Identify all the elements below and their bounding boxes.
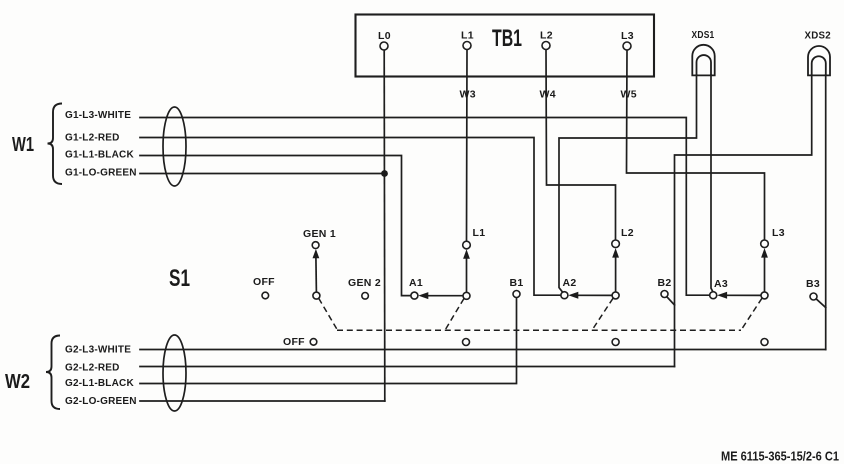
- svg-text:G2-L2-RED: G2-L2-RED: [65, 363, 120, 374]
- wire S1 arm GEN1: [315, 257, 318, 292]
- lamp XDS2: [808, 46, 830, 75]
- wire S1 arm L2 up: [615, 257, 617, 292]
- brace W2: [46, 336, 60, 410]
- arrowhead A3: [717, 292, 727, 299]
- contact L3: [761, 240, 769, 248]
- wire G2-L2-RED to B2: [140, 366, 675, 368]
- wire S1 arm L2 to A2: [578, 294, 613, 296]
- svg-text:W1: W1: [12, 134, 34, 156]
- contact GEN2: [362, 293, 369, 300]
- wire S1 arm L1 to A1: [428, 295, 463, 297]
- junction dot G1-LO-GREEN / L0: [381, 170, 388, 177]
- svg-text:A1: A1: [409, 277, 423, 289]
- wire W3 (TB1-L1 to S1 pole L1): [466, 50, 469, 242]
- pivot pole1: [463, 292, 470, 299]
- wire G1-L1-BLACK to contact A1: [140, 156, 411, 296]
- contact B1: [513, 291, 520, 298]
- wire G1-L3-WHITE to contact A3: [140, 118, 710, 296]
- terminal TB1-L3: [623, 42, 631, 50]
- wire stub B2: [667, 297, 675, 305]
- arrowhead L1 up: [463, 249, 470, 258]
- svg-text:L1: L1: [473, 227, 486, 239]
- wire XDS1 pin2 to contact A3: [711, 75, 713, 292]
- terminal TB1-L2: [542, 42, 550, 50]
- S1 gang dashed linkage rail: [319, 298, 762, 330]
- svg-text:L3: L3: [772, 227, 785, 239]
- svg-text:B2: B2: [658, 277, 672, 289]
- svg-text:L0: L0: [378, 30, 391, 42]
- svg-text:B3: B3: [806, 278, 820, 290]
- svg-text:G1-LO-GREEN: G1-LO-GREEN: [65, 168, 137, 179]
- wire L0 bus (TB1-L0 down to G2-LO-GREEN): [383, 50, 386, 401]
- wire W5 (TB1-L3 to S1 pole L3): [627, 50, 765, 241]
- svg-text:L1: L1: [461, 30, 474, 42]
- contact B3: [810, 293, 817, 300]
- arrowhead A2: [568, 292, 578, 299]
- terminal TB1-L0: [380, 42, 388, 50]
- arrowhead L3 up: [761, 248, 768, 258]
- contact OFF row 2: [310, 339, 317, 346]
- gang link L1: [445, 299, 464, 331]
- contact A1: [411, 292, 418, 299]
- cable sheath W2: [163, 335, 186, 411]
- svg-text:L3: L3: [621, 30, 634, 42]
- arrowhead GEN1: [313, 249, 320, 258]
- svg-text:XDS2: XDS2: [805, 30, 832, 42]
- terminal block TB1: [356, 15, 655, 77]
- contact off pole3: [761, 339, 768, 346]
- svg-text:S1: S1: [169, 265, 190, 292]
- svg-text:G2-L3-WHITE: G2-L3-WHITE: [65, 345, 131, 356]
- brace W1: [48, 104, 63, 185]
- svg-text:GEN 1: GEN 1: [303, 228, 336, 240]
- terminal TB1-L1: [463, 42, 471, 50]
- svg-text:B1: B1: [510, 277, 524, 289]
- arrowhead L2 up: [612, 248, 619, 258]
- wire G2-LO-GREEN to L0 bus: [140, 400, 385, 402]
- wire G2-L3-WHITE to B3: [140, 349, 826, 351]
- svg-text:OFF: OFF: [283, 336, 305, 348]
- contact GEN1: [312, 242, 319, 249]
- wire S1 arm L3 to A3: [727, 294, 762, 296]
- svg-text:G1-L2-RED: G1-L2-RED: [65, 133, 120, 144]
- wire W4 (TB1-L2 to S1 pole L2): [546, 50, 616, 241]
- arrowhead A1: [418, 292, 428, 299]
- svg-text:GEN 2: GEN 2: [348, 277, 381, 289]
- svg-text:G1-L1-BLACK: G1-L1-BLACK: [65, 150, 134, 161]
- svg-text:G2-L1-BLACK: G2-L1-BLACK: [65, 378, 134, 389]
- svg-text:OFF: OFF: [253, 276, 275, 288]
- wire XDS2 pin1 to contact B2 / G2-L2-RED: [675, 75, 812, 367]
- wire G2-L1-BLACK to contact B1: [140, 297, 517, 383]
- pivot pole3: [761, 292, 768, 299]
- svg-text:L2: L2: [540, 30, 553, 42]
- wire G1-LO-GREEN: [140, 173, 385, 175]
- wire stub B3: [816, 299, 826, 308]
- wire XDS2 pin2 to B3 / G2-L3-WHITE: [825, 75, 827, 350]
- svg-text:W3: W3: [460, 89, 476, 101]
- svg-text:G1-L3-WHITE: G1-L3-WHITE: [65, 110, 131, 121]
- contact A3: [710, 292, 717, 299]
- pivot gen-select: [313, 292, 320, 299]
- cable sheath W1: [163, 107, 186, 186]
- contact A2: [561, 292, 568, 299]
- contact L2: [612, 240, 620, 248]
- wire XDS1 pin1 to contact A2: [559, 75, 697, 292]
- contact off pole2: [612, 339, 619, 346]
- gang link GEN1: [319, 298, 338, 330]
- svg-text:ME 6115-365-15/2-6 C1: ME 6115-365-15/2-6 C1: [721, 450, 839, 464]
- wire S1 arm L1 up: [466, 258, 468, 292]
- contact OFF (gen select): [262, 292, 269, 299]
- gang link L3: [741, 298, 762, 330]
- wire S1 arm L3 up: [764, 257, 766, 292]
- pivot pole2: [612, 292, 619, 299]
- svg-text:W2: W2: [5, 371, 30, 393]
- svg-text:A3: A3: [714, 278, 728, 290]
- svg-text:W5: W5: [621, 89, 637, 101]
- contact L1: [463, 241, 471, 249]
- svg-text:G2-LO-GREEN: G2-LO-GREEN: [65, 396, 137, 407]
- wire G1-L2-RED to contact A2: [140, 138, 561, 296]
- svg-text:A2: A2: [563, 277, 577, 289]
- contact off pole1: [463, 339, 470, 346]
- svg-text:TB1: TB1: [492, 25, 522, 52]
- lamp XDS1: [692, 45, 714, 76]
- contact B2: [661, 291, 668, 298]
- svg-text:W4: W4: [540, 89, 556, 101]
- svg-text:L2: L2: [621, 227, 634, 239]
- gang link L2: [592, 298, 613, 330]
- svg-text:XDS1: XDS1: [692, 29, 715, 41]
